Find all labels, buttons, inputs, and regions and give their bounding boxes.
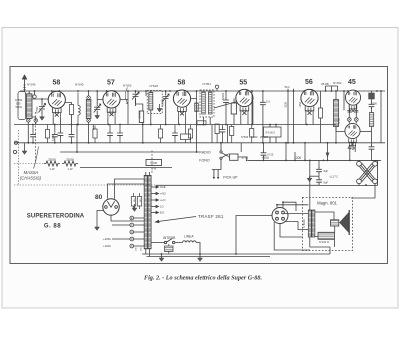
T3 secondary labels bbox=[160, 185, 167, 215]
wire x241 bbox=[240, 143, 242, 152]
svg-text:25.000: 25.000 bbox=[260, 135, 268, 139]
wire x146 bbox=[145, 91, 147, 96]
parts left of 56 bbox=[288, 89, 294, 143]
tube V4 legs bbox=[214, 101, 253, 125]
resistor R14 bbox=[93, 126, 97, 143]
svg-text:N°6.00.5: N°6.00.5 bbox=[266, 132, 276, 135]
ground under bus left bbox=[22, 143, 27, 155]
wire bus y167.5 bbox=[80, 167, 172, 169]
V9 wiring bbox=[236, 186, 375, 255]
svg-text:1750: 1750 bbox=[242, 156, 249, 160]
svg-text:1 W: 1 W bbox=[50, 167, 55, 171]
resistor R12 bbox=[318, 91, 322, 143]
svg-text:5.000: 5.000 bbox=[51, 134, 55, 141]
svg-text:FONO: FONO bbox=[199, 158, 210, 162]
svg-text:O2E: O2E bbox=[160, 185, 166, 189]
svg-text:N°452: N°452 bbox=[333, 81, 342, 85]
speaker wires bbox=[315, 212, 335, 237]
resistor R1 box bbox=[139, 111, 143, 123]
Magn 801 dashed box bbox=[303, 198, 353, 251]
svg-text:5200: 5200 bbox=[285, 102, 288, 108]
svg-text:550: 550 bbox=[16, 102, 21, 106]
svg-text:N°550: N°550 bbox=[36, 106, 39, 113]
antenna bbox=[25, 75, 30, 94]
svg-text:G. 88: G. 88 bbox=[44, 224, 61, 230]
svg-text:45: 45 bbox=[348, 145, 356, 152]
tube V4 55 bbox=[236, 89, 253, 115]
tube V7 legs bbox=[350, 145, 355, 161]
wire x371.5 bbox=[371, 91, 373, 160]
capacitor C17 bbox=[117, 125, 123, 143]
capacitor C15 bbox=[58, 125, 64, 143]
small parts right of 56 bbox=[326, 86, 338, 91]
capacitor C12 bbox=[261, 151, 267, 158]
variable capacitor C5 bbox=[94, 91, 101, 114]
pointer curve N565 bbox=[125, 88, 128, 104]
svg-text:56.2: 56.2 bbox=[285, 85, 291, 89]
arrow trasf bbox=[156, 217, 197, 223]
svg-text:N°603: N°603 bbox=[241, 135, 249, 139]
resistor R5 25000 bbox=[44, 161, 60, 166]
ground under C1 bbox=[40, 115, 45, 120]
tube V3 legs bbox=[178, 99, 196, 125]
wire x309.8 B+ bbox=[309, 160, 311, 210]
wire x286 bbox=[285, 143, 287, 161]
resistor R8 200 bbox=[165, 244, 174, 254]
svg-text:N°55: N°55 bbox=[337, 118, 341, 124]
svg-text:LINEA: LINEA bbox=[184, 235, 194, 239]
osc coil L2 bbox=[86, 96, 91, 122]
resistor R16 bbox=[188, 125, 192, 143]
svg-text:N°550: N°550 bbox=[15, 98, 23, 102]
svg-text:D: D bbox=[131, 237, 133, 241]
resistor R3 bbox=[370, 113, 374, 127]
trimmer C7 bbox=[162, 91, 169, 125]
tube V2 57 bbox=[103, 91, 120, 117]
svg-text:N°8019: N°8019 bbox=[302, 219, 306, 228]
svg-text:8µF: 8µF bbox=[324, 181, 329, 185]
svg-text:SUPERETERODINA: SUPERETERODINA bbox=[27, 214, 85, 220]
capacitor C11 bbox=[369, 145, 375, 152]
svg-text:C: C bbox=[131, 244, 133, 248]
terminal P2 bbox=[215, 85, 218, 91]
resistor R10 bbox=[250, 125, 254, 143]
svg-text:N°618: N°618 bbox=[150, 84, 159, 88]
resistor R15 bbox=[158, 125, 162, 143]
wire bottom bus y254 bbox=[142, 253, 330, 255]
wire x212 bbox=[211, 125, 213, 143]
interconnect 45a-45b bbox=[347, 105, 358, 124]
wire x270 bbox=[269, 125, 271, 143]
choke L4 bbox=[334, 91, 339, 143]
svg-text:500Ω: 500Ω bbox=[16, 105, 22, 109]
svg-text:26.88: 26.88 bbox=[321, 82, 329, 86]
svg-text:80: 80 bbox=[95, 194, 103, 201]
svg-text:5.0: 5.0 bbox=[266, 100, 270, 104]
wire 45b plate bbox=[360, 131, 372, 133]
T1 leads bbox=[150, 91, 152, 125]
wire x263 cap leads bbox=[263, 143, 265, 161]
svg-text:PICK-UP: PICK-UP bbox=[223, 176, 238, 180]
svg-text:5.000: 5.000 bbox=[150, 161, 157, 165]
T3 primary taps bbox=[112, 216, 144, 248]
helix coil L5 bbox=[78, 93, 80, 125]
T3 secondary arrows bbox=[151, 186, 158, 214]
svg-text:N°565: N°565 bbox=[123, 84, 132, 88]
output transformer T4 bbox=[308, 210, 315, 237]
resistor R4 1750 bbox=[229, 154, 249, 160]
svg-text:N°546: N°546 bbox=[27, 83, 36, 87]
capacitor row C2 bbox=[30, 125, 36, 143]
tube V7 45b bbox=[345, 123, 360, 146]
svg-text:25000: 25000 bbox=[66, 157, 74, 161]
wire bus y160.4 right bbox=[248, 159, 381, 161]
svg-text:N°540: N°540 bbox=[75, 83, 84, 87]
speaker bbox=[331, 210, 350, 235]
svg-text:(CHASSIS): (CHASSIS) bbox=[20, 176, 42, 181]
dashed vertical b bbox=[151, 151, 153, 174]
filter box bbox=[264, 127, 282, 137]
svg-text:+160v: +160v bbox=[103, 244, 112, 248]
svg-text:MASSA: MASSA bbox=[24, 170, 39, 175]
T2 leads bbox=[204, 117, 211, 125]
svg-text:500: 500 bbox=[373, 102, 378, 106]
tube V5 legs bbox=[306, 116, 313, 125]
wire x77 bbox=[76, 125, 78, 153]
capacitor C3 bbox=[52, 125, 58, 143]
wire x327 bbox=[327, 143, 329, 161]
tube V5 56 bbox=[301, 89, 318, 115]
coil L1 leads bbox=[28, 122, 36, 143]
svg-text:+LO: +LO bbox=[160, 198, 166, 202]
wire grid line stage1 bbox=[32, 98, 49, 100]
svg-text:Fig. 2. - Lo schema elettrico: Fig. 2. - Lo schema elettrico della Supe… bbox=[144, 275, 263, 282]
svg-text:E: E bbox=[131, 216, 133, 220]
svg-text:+200v: +200v bbox=[103, 237, 112, 241]
capacitor C18 bbox=[172, 125, 178, 143]
svg-text:1 W: 1 W bbox=[68, 167, 73, 171]
ground under 80 bbox=[95, 225, 100, 230]
svg-text:+200: +200 bbox=[262, 156, 269, 160]
wire bus y150 bbox=[60, 151, 199, 153]
wire 45b to choke bbox=[336, 127, 345, 132]
trimmer C6 bbox=[132, 91, 139, 106]
wire bottom bus y256.5 bbox=[147, 256, 271, 258]
resistor R13 bbox=[45, 125, 49, 143]
resistor R18 on x196 bbox=[195, 103, 199, 112]
wire x120 bbox=[127, 91, 129, 125]
ground left of transformer bbox=[132, 204, 137, 211]
resistor R7 5000 bbox=[146, 160, 162, 171]
capacitor C9 bbox=[260, 91, 266, 143]
switch S1 bbox=[220, 142, 229, 166]
svg-text:G: G bbox=[131, 230, 133, 234]
antenna coil L1 box bbox=[18, 92, 38, 123]
resistor R19 plate load bbox=[69, 105, 73, 115]
right column parts bbox=[344, 91, 381, 160]
wire x276 bbox=[275, 125, 277, 143]
resistor R17 bbox=[215, 124, 219, 143]
svg-text:30000: 30000 bbox=[161, 99, 165, 107]
svg-text:RADIO: RADIO bbox=[199, 150, 211, 154]
svg-text:45: 45 bbox=[348, 79, 356, 86]
tube V3 58 bbox=[173, 90, 190, 116]
svg-text:1 W: 1 W bbox=[151, 167, 156, 171]
capacitor C19 bbox=[220, 125, 226, 143]
wire x295 bbox=[294, 152, 296, 160]
dashed vertical gang a bbox=[35, 112, 37, 162]
ground under C5 bbox=[95, 114, 100, 119]
svg-text:+NO: +NO bbox=[160, 192, 167, 196]
tube V9 output socket bbox=[272, 208, 288, 224]
schematic frame bbox=[10, 67, 388, 264]
capacitor C8 bbox=[223, 91, 229, 125]
arrow on x327 wire bbox=[326, 153, 330, 158]
wire plate 58 right bbox=[65, 103, 71, 125]
tap letters bbox=[131, 216, 133, 248]
svg-text:TRASF 281: TRASF 281 bbox=[198, 214, 224, 219]
return line y185.3 bbox=[156, 184, 319, 186]
ground near caps bbox=[307, 176, 319, 181]
svg-text:N°100 Ω: N°100 Ω bbox=[319, 240, 329, 244]
T3 tap boxes bbox=[131, 193, 141, 209]
tube V1 legs bbox=[53, 117, 60, 124]
capacitor C16 bbox=[107, 125, 113, 143]
tube V1 58 bbox=[48, 91, 65, 117]
svg-text:INTERR.: INTERR. bbox=[163, 236, 176, 240]
svg-text:58: 58 bbox=[178, 80, 186, 87]
svg-text:-LL17.C: -LL17.C bbox=[329, 175, 338, 179]
LINEA coil bbox=[181, 241, 200, 254]
wire x227.5 bbox=[227, 125, 229, 143]
wire x305 bbox=[304, 143, 306, 161]
terminal P bbox=[34, 91, 36, 95]
dashed segment y163.5 bbox=[14, 163, 44, 165]
svg-text:Magn. 801: Magn. 801 bbox=[317, 201, 337, 206]
tube V2 legs bbox=[108, 117, 115, 125]
tap arrows labels bbox=[103, 237, 112, 248]
field wires bbox=[310, 237, 335, 254]
pickup bbox=[212, 166, 221, 179]
wire x381 bbox=[380, 91, 382, 143]
wire bus top y91 bbox=[20, 90, 385, 92]
svg-text:56: 56 bbox=[305, 79, 313, 86]
resistor R1 lead bbox=[136, 98, 143, 143]
ground T1 bbox=[157, 104, 162, 112]
coil L2 leads bbox=[89, 91, 94, 143]
wire bus y124.5 bbox=[14, 124, 336, 126]
trimmer C1 bbox=[39, 99, 46, 115]
svg-text:50000: 50000 bbox=[221, 92, 225, 100]
chassis dashed line horizontal bbox=[14, 184, 156, 186]
wire x196 bbox=[196, 91, 198, 152]
wire bus y142.8 bbox=[14, 142, 385, 144]
resistor R20 bbox=[181, 125, 191, 143]
svg-text:25000: 25000 bbox=[48, 157, 56, 161]
V9 top dots bbox=[276, 201, 284, 205]
svg-text:57: 57 bbox=[107, 79, 115, 86]
svg-text:10.000: 10.000 bbox=[138, 110, 142, 118]
chassis dashed line vertical bbox=[17, 130, 19, 185]
svg-text:1.000: 1.000 bbox=[251, 135, 258, 139]
svg-text:58: 58 bbox=[53, 80, 61, 87]
tube V8 80 bbox=[103, 199, 119, 215]
tube V8 wiring bbox=[97, 179, 144, 225]
svg-text:8µF: 8µF bbox=[324, 169, 329, 173]
massa arrow bbox=[34, 147, 39, 169]
capacitor C10 bbox=[369, 93, 375, 99]
capacitor C13 8uF bbox=[316, 160, 322, 176]
resistor R11 horiz bbox=[197, 121, 206, 125]
power transformer T3 bbox=[144, 172, 151, 257]
capacitor C14 8uF bbox=[316, 176, 322, 185]
ground bottom bus b bbox=[198, 254, 203, 261]
resistor R2 bbox=[231, 99, 236, 125]
svg-text:55: 55 bbox=[239, 80, 247, 87]
wire x252 bbox=[251, 91, 253, 125]
field resistor bbox=[318, 232, 335, 239]
capacitor C4 bbox=[69, 125, 75, 143]
tube V6 45a bbox=[345, 90, 360, 113]
svg-text:N°451: N°451 bbox=[203, 82, 212, 86]
resistor R6 25000 bbox=[62, 161, 78, 166]
ground bottom bus bbox=[159, 254, 164, 261]
resistor R9 bbox=[230, 125, 234, 143]
wire x344 bbox=[343, 91, 345, 110]
terminal circles left frame bbox=[13, 141, 17, 153]
INTERR switch bbox=[151, 238, 181, 243]
wire grid 57 bbox=[97, 98, 128, 100]
